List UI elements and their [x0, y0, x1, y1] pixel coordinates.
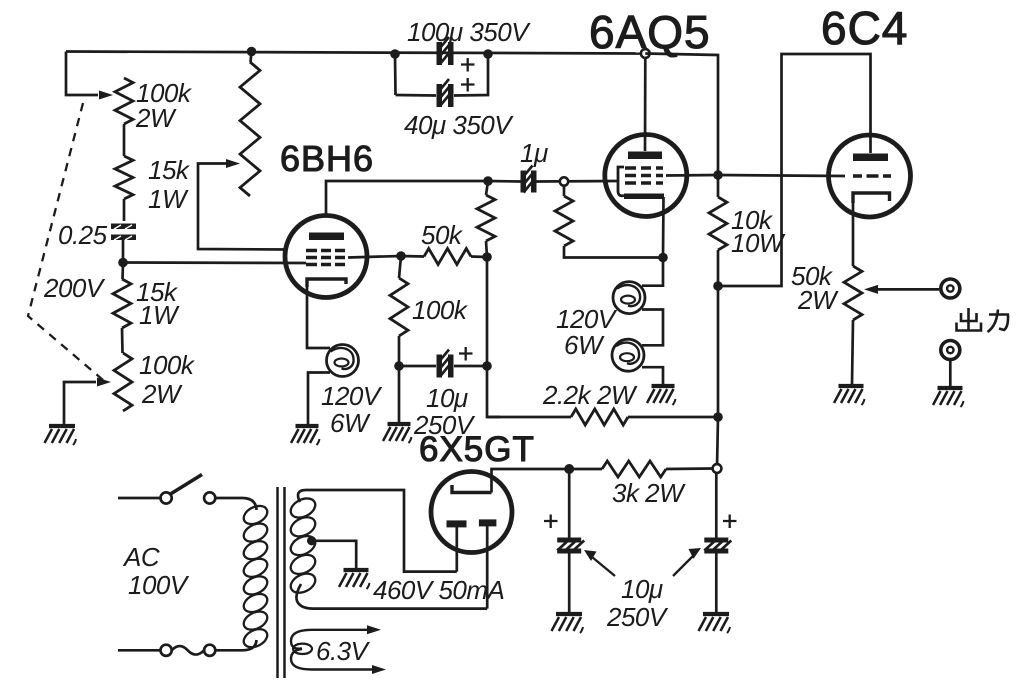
wire 6BH6 screen exit: [348, 256, 401, 258]
wire 6AQ5 cathode down: [662, 197, 665, 258]
wire 6BH6 cathode down: [307, 284, 330, 348]
plate tap circle on rail: [641, 49, 650, 58]
wire switch to primary: [215, 498, 256, 510]
svg-text:1μ: 1μ: [520, 138, 548, 168]
wiper arrow into R4: [97, 378, 111, 387]
svg-text:10μ: 10μ: [621, 574, 663, 604]
capacitor C3 40u 350V: [437, 84, 443, 107]
potentiometer R4 100k 2W: [114, 353, 132, 411]
wire rail to B+ column top: [645, 54, 718, 176]
svg-text:1W: 1W: [139, 300, 180, 330]
wire 1u node to C5: [488, 180, 521, 183]
output jack J2: [941, 341, 960, 360]
node 6BH6 screen junction: [396, 251, 406, 261]
node 2.2k junction: [713, 412, 723, 422]
wire left drop to pot R1 wiper: [66, 52, 98, 96]
svg-text:6X5GT: 6X5GT: [419, 430, 535, 469]
tube 6AQ5 envelope: [605, 135, 687, 217]
wire 6C4 grid from screen node: [718, 175, 845, 176]
wire fuse to primary bottom: [215, 640, 256, 650]
wire R5 wiper to 6BH6 grid: [198, 164, 287, 250]
wire L3 to ground: [642, 367, 663, 384]
resistor R10 grid: [555, 196, 573, 246]
wire C1 to node 200V: [122, 240, 125, 263]
svg-text:100μ 350V: 100μ 350V: [407, 17, 531, 47]
wire plate feed column: [487, 257, 500, 417]
capacitor C5 1u: [521, 171, 527, 193]
svg-text:50k: 50k: [421, 220, 464, 250]
wire R2 to C1: [123, 199, 126, 221]
wire R10 to cathode node: [564, 246, 663, 258]
wire 6C4 cathode down: [852, 203, 855, 266]
wire left plate down: [455, 527, 458, 572]
wire R11 to branch node: [717, 250, 720, 286]
6AQ5 grid row 3: [625, 181, 663, 185]
node rail-cap left: [390, 49, 400, 59]
wire cathode to lamp L2: [642, 258, 663, 286]
6BH6 grid row 2: [306, 256, 345, 260]
node screen-grid junction: [713, 170, 723, 180]
svg-text:1W: 1W: [148, 184, 189, 214]
ground G4 under lamps: [652, 384, 675, 388]
wire R1 to R2: [123, 124, 126, 156]
ground G2 under lamp L1: [296, 424, 319, 428]
svg-text:3k 2W: 3k 2W: [612, 478, 686, 508]
wire R3 to R4: [121, 328, 124, 353]
svg-text:2W: 2W: [141, 379, 183, 409]
capacitor C4 10u 250V: [437, 355, 443, 378]
wiper arrow into R1: [99, 91, 113, 100]
6X5GT cathode bar: [452, 485, 492, 493]
6AQ5 grid row 2: [625, 174, 663, 178]
ground G6 under R12: [839, 384, 864, 388]
node R8-C4: [394, 361, 404, 371]
wire cap loop down-left: [394, 54, 397, 95]
svg-text:460V 50mA: 460V 50mA: [373, 575, 504, 605]
svg-text:2W: 2W: [797, 285, 839, 315]
wire AC top lead: [118, 497, 160, 500]
resistor R8 100k vertical: [390, 278, 408, 336]
6C4 grid dashes: [853, 174, 891, 178]
wire R13 to B+ node: [666, 467, 713, 470]
switch S1 lever: [171, 475, 203, 495]
wire tap to R10: [563, 186, 566, 196]
ground G9 center tap: [344, 568, 369, 572]
6AQ5 cathode bar: [624, 194, 664, 200]
capacitor C6 10u 250V: [557, 538, 581, 543]
junction circle B+ 3k node: [713, 464, 722, 473]
capacitor C1 0.25: [111, 224, 136, 230]
label output kanji: [967, 308, 970, 330]
wire R8 to cap node: [398, 336, 401, 366]
output jack J1: [941, 279, 960, 298]
6X5GT plate bar left: [447, 520, 467, 527]
ground G1 volume: [49, 424, 75, 428]
wire node to R3: [121, 263, 124, 279]
transformer HV secondary winding: [288, 495, 319, 522]
wire HV top to 6X5GT plate: [298, 490, 457, 572]
6X5GT plate bar right: [479, 519, 497, 526]
6C4 plate bar: [853, 154, 888, 162]
wire C4 node to R9: [487, 416, 571, 419]
svg-text:10W: 10W: [731, 228, 786, 258]
wire right plate down: [486, 526, 489, 609]
ground G8 under C7: [703, 612, 729, 616]
node rail-cap right: [483, 49, 493, 59]
wire R7 to plate feed node: [486, 241, 487, 257]
6AQ5 grid row 1: [625, 166, 663, 170]
wire C5 to 6AQ5 grid: [536, 180, 618, 183]
arrow to C6: [592, 557, 615, 576]
wire B+ top rail: [66, 52, 645, 54]
node rail junction R5: [247, 47, 257, 57]
svg-text:0.25: 0.25: [58, 220, 108, 250]
plus mark C4: [459, 347, 473, 361]
lamp L1 120V 6W: [327, 345, 359, 377]
svg-text:250V: 250V: [606, 602, 669, 632]
ground G7 under C6: [556, 612, 582, 616]
plus mark C2: [461, 58, 475, 72]
svg-text:100k: 100k: [412, 295, 469, 325]
wire 6AQ5 plate: [644, 58, 647, 151]
potentiometer R5: [240, 62, 260, 196]
tube 6X5GT envelope: [431, 472, 512, 553]
wire 6C4 plate feed: [718, 54, 871, 286]
node 6AQ5 cathode junction: [658, 253, 668, 263]
transformer 6.3V winding: [291, 630, 312, 649]
junction circle grid resistor tap: [560, 177, 568, 185]
lamp L3 120V 6W: [612, 339, 644, 371]
wiper arrow into R12: [864, 285, 878, 294]
junction dot cathode node: [564, 464, 574, 474]
resistor R7 50k vertical: [477, 195, 495, 241]
potentiometer R12 50k 2W: [844, 266, 862, 320]
wire node to R11: [717, 175, 720, 197]
svg-text:6BH6: 6BH6: [280, 138, 374, 179]
transformer primary winding: [241, 502, 270, 527]
svg-text:15k: 15k: [148, 155, 191, 185]
svg-text:100V: 100V: [128, 570, 190, 600]
svg-text:120V: 120V: [321, 381, 383, 411]
node C4 right: [482, 361, 492, 371]
svg-text:100k: 100k: [139, 350, 196, 380]
wire C7 to ground: [715, 553, 718, 612]
wire AC bottom lead: [118, 649, 160, 652]
wire node to C4: [399, 365, 487, 368]
node 1u left: [483, 176, 493, 186]
6C4 cathode bar: [853, 193, 890, 203]
6AQ5 beam plate bracket: [618, 167, 624, 196]
wire L2 to L3: [642, 310, 663, 346]
6BH6 grid row 1: [306, 249, 345, 253]
capacitor C7 10u 250V: [704, 538, 728, 543]
plus mark C7: [723, 515, 737, 529]
wire node to C6: [568, 474, 571, 539]
svg-text:6W: 6W: [564, 330, 605, 360]
wire J2 to ground: [949, 360, 952, 387]
ground G5 under J2: [938, 386, 963, 390]
wire center tap to ground: [312, 541, 357, 568]
lamp L2 120V 6W: [613, 282, 645, 314]
resistor R11 10k 10W: [709, 197, 727, 250]
svg-text:6C4: 6C4: [821, 2, 908, 54]
plus mark C3: [461, 78, 475, 92]
wire 6.3V bottom lead: [312, 668, 373, 670]
HV center tap: [307, 536, 316, 545]
node plate feed: [482, 252, 492, 262]
svg-text:AC: AC: [122, 542, 160, 572]
arrow to C7: [673, 555, 694, 576]
wire rail to R5: [251, 52, 252, 63]
wire R9 to B+ column: [628, 416, 718, 419]
fuse F1: [161, 645, 172, 656]
node 6C4 feed branch: [713, 281, 723, 291]
wire 1u node to R7: [486, 181, 488, 195]
wire node to ground G3: [398, 366, 401, 422]
dashed gang line: [28, 103, 103, 380]
resistor R3 15k 1W: [113, 279, 131, 328]
wire lamp L1 to ground: [308, 373, 330, 425]
wire 6.3V top lead: [312, 629, 368, 631]
capacitor C2 100u 350V: [437, 42, 443, 65]
svg-text:2.2k 2W: 2.2k 2W: [542, 380, 638, 410]
node 200V junction: [118, 258, 128, 268]
wire B+ node to C7: [715, 473, 718, 538]
wire 6BH6 plate to 1u node: [326, 181, 488, 216]
6BH6 grid row 3: [306, 263, 345, 267]
6BH6 plate bar: [309, 233, 344, 241]
wire screen node to R6: [401, 255, 424, 258]
ground G3: [388, 422, 411, 426]
resistor R2 15k 1W: [115, 156, 133, 199]
potentiometer R1 100k 2W: [115, 78, 133, 124]
plus mark C6: [544, 515, 558, 529]
svg-text:10μ: 10μ: [426, 383, 468, 413]
wiper arrow into R5: [226, 159, 240, 168]
wire 2.2k node to 3k node: [717, 417, 718, 469]
switch S1 contacts: [161, 492, 172, 503]
wire cap loop bottom: [396, 54, 489, 96]
svg-text:6W: 6W: [330, 408, 371, 438]
wire screen node to R8: [399, 256, 401, 278]
svg-text:200V: 200V: [43, 273, 106, 303]
6AQ5 plate bar: [628, 152, 662, 160]
wire 6AQ5 screen to B+ column: [666, 174, 718, 177]
wire 6X5GT cathode to 3k node: [492, 469, 566, 493]
resistor R6 50k horizontal: [424, 249, 471, 265]
tube 6BH6 envelope: [285, 216, 367, 298]
svg-text:2W: 2W: [135, 103, 177, 133]
wire R4 wiper to ground: [64, 382, 96, 424]
wire HV bottom to right plate: [296, 584, 487, 609]
wire R12 to ground: [852, 320, 853, 384]
tube 6C4 envelope: [829, 135, 911, 217]
6BH6 cathode bar: [307, 279, 346, 287]
wire B+ column to 2.2k node: [717, 286, 720, 417]
wire grid3 entry from 200V node: [123, 261, 306, 264]
resistor R9 2.2k 2W: [571, 409, 628, 425]
resistor R13 3k 2W: [602, 461, 666, 477]
wire C6 to ground: [568, 553, 571, 612]
transformer core: [278, 487, 285, 678]
wire node to R13: [574, 468, 603, 471]
wire R6 to plate feed node: [471, 255, 487, 258]
wire R12 wiper to jack J1: [878, 288, 939, 291]
svg-text:40μ 350V: 40μ 350V: [404, 110, 514, 140]
svg-text:6.3V: 6.3V: [316, 636, 371, 666]
